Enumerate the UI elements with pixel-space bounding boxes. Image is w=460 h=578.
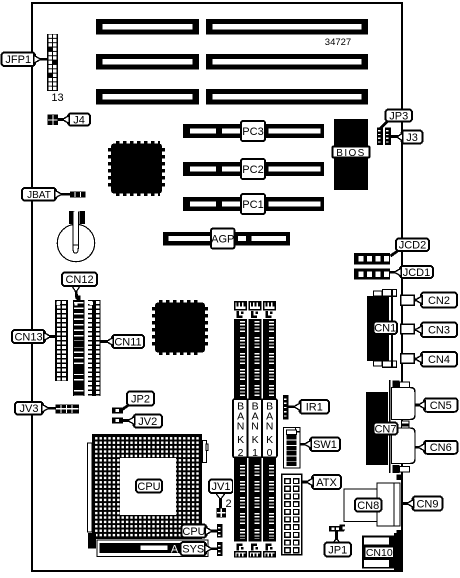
- label CN8: [355, 499, 382, 512]
- svg-text:JFP1: JFP1: [5, 54, 31, 66]
- svg-text:CN11: CN11: [114, 336, 141, 348]
- svg-text:K: K: [237, 434, 244, 446]
- svg-text:JV3: JV3: [20, 403, 39, 415]
- jumper JP2: [112, 408, 123, 414]
- svg-text:CPU: CPU: [182, 526, 205, 538]
- connector CN10: [362, 536, 396, 569]
- ISA slot 1: [96, 89, 199, 105]
- slot bar A: [97, 540, 208, 557]
- jumper block JP3: [377, 128, 383, 146]
- connector CN1 block: [367, 296, 389, 361]
- callout JCD2: [391, 250, 400, 256]
- svg-text:JP1: JP1: [328, 544, 347, 556]
- southbridge chip: [159, 300, 201, 303]
- svg-text:SW1: SW1: [313, 439, 337, 451]
- connector CN8: [344, 489, 377, 522]
- ATX power connector: [282, 474, 302, 555]
- port CN4: [401, 354, 415, 364]
- svg-text:J4: J4: [73, 114, 85, 126]
- callout SW1: [310, 438, 340, 452]
- svg-text:CN8: CN8: [357, 500, 379, 512]
- callout JP3: [381, 120, 389, 129]
- callout CN2: [421, 293, 457, 308]
- svg-text:J3: J3: [406, 132, 418, 144]
- svg-text:JCD2: JCD2: [399, 240, 427, 252]
- svg-text:AGP: AGP: [211, 233, 234, 245]
- svg-text:N: N: [266, 421, 274, 433]
- PCI slot PC1: [183, 197, 324, 211]
- svg-text:JV1: JV1: [212, 481, 231, 493]
- jumper JP1: [329, 526, 344, 532]
- port CN6: [392, 428, 416, 464]
- svg-text:PC1: PC1: [242, 199, 263, 211]
- callout CN11: [112, 335, 144, 348]
- svg-text:CN7: CN7: [374, 423, 396, 435]
- callout JBAT: [22, 188, 56, 201]
- port CN2: [401, 295, 415, 305]
- label CPU: [136, 480, 162, 493]
- svg-text:0: 0: [267, 447, 273, 459]
- svg-text:JCD1: JCD1: [403, 267, 431, 279]
- callout JV3: [15, 402, 43, 415]
- svg-text:JP3: JP3: [389, 110, 408, 122]
- svg-text:JV2: JV2: [138, 416, 157, 428]
- header CPU fan: [217, 524, 223, 538]
- northbridge chip: [116, 141, 160, 144]
- DIMM slot BANK0: [262, 300, 277, 558]
- DIP switch SW1: [284, 428, 301, 469]
- callout JV1: [219, 492, 222, 508]
- svg-text:CN1: CN1: [374, 323, 396, 335]
- ISA slot 3: [96, 19, 199, 35]
- callout IR1: [300, 400, 330, 414]
- connector CN11 (IDE): [88, 300, 101, 396]
- svg-text:CN12: CN12: [65, 274, 93, 286]
- callout CN9: [413, 497, 443, 511]
- svg-text:ATX: ATX: [316, 477, 337, 489]
- jumper JV2: [112, 418, 123, 424]
- jumper JV1 block: [217, 508, 227, 518]
- DIMM slot BANK1: [247, 300, 262, 558]
- callout JCD1: [400, 266, 433, 278]
- socket lever left: [88, 443, 93, 532]
- callout CN6: [424, 441, 458, 454]
- svg-text:CN6: CN6: [430, 442, 452, 454]
- connector JCD2: [354, 253, 390, 265]
- callout CN13: [12, 330, 45, 343]
- svg-text:CN3: CN3: [428, 325, 450, 337]
- svg-text:13: 13: [51, 92, 63, 104]
- callout CPU (fan): [182, 525, 207, 538]
- label CN1: [374, 322, 398, 335]
- label CN7: [374, 423, 398, 435]
- mid tabs CN5/CN6: [402, 421, 410, 424]
- callout J4: [68, 114, 90, 126]
- svg-text:CN5: CN5: [430, 400, 452, 412]
- svg-text:JP2: JP2: [131, 393, 150, 405]
- callout JV2: [134, 415, 163, 428]
- connector CN13 (floppy): [55, 300, 68, 381]
- svg-text:IR1: IR1: [306, 402, 323, 414]
- callout JP1: [335, 530, 338, 545]
- battery: [57, 224, 94, 261]
- jumper J4: [48, 115, 59, 126]
- callout CN5: [424, 398, 458, 412]
- callout CN3: [421, 323, 457, 338]
- svg-text:2: 2: [238, 447, 244, 459]
- jumper JBAT: [70, 192, 86, 198]
- svg-text:CN10: CN10: [366, 547, 393, 559]
- connector CN7 block: [366, 392, 388, 465]
- connector JFP1 (front panel header): [47, 34, 58, 91]
- svg-text:JBAT: JBAT: [27, 190, 51, 201]
- PCI slot PC2: [183, 162, 324, 176]
- DIMM slot BANK2: [233, 300, 248, 558]
- svg-text:PC3: PC3: [242, 126, 263, 138]
- svg-text:BIOS: BIOS: [336, 148, 366, 159]
- svg-text:34727: 34727: [325, 37, 351, 48]
- callout JP2: [122, 404, 131, 410]
- socket latch right: [203, 441, 207, 463]
- svg-text:PC2: PC2: [242, 164, 263, 176]
- callout CN4: [421, 352, 457, 367]
- header SYS fan: [217, 542, 223, 556]
- AGP slot: [163, 232, 290, 246]
- svg-text:N: N: [237, 421, 245, 433]
- svg-text:K: K: [266, 434, 273, 446]
- svg-text:CN9: CN9: [416, 498, 438, 510]
- connector JCD1: [354, 269, 390, 280]
- port CN3: [401, 324, 415, 334]
- header IR1: [283, 395, 289, 420]
- header JV3: [56, 405, 80, 414]
- callout JFP1: [2, 53, 36, 67]
- svg-text:CN2: CN2: [428, 295, 450, 307]
- svg-text:K: K: [252, 434, 259, 446]
- svg-text:CN4: CN4: [428, 354, 450, 366]
- svg-text:N: N: [251, 421, 259, 433]
- svg-text:SYS: SYS: [182, 544, 204, 556]
- svg-text:CPU: CPU: [137, 481, 160, 493]
- CPU socket: [92, 434, 202, 539]
- callout ATX: [312, 475, 341, 489]
- svg-text:A: A: [171, 544, 179, 556]
- motherboard outline: [32, 3, 402, 571]
- jumper block J3: [385, 128, 391, 146]
- BIOS chip: [334, 119, 368, 190]
- callout SYS (fan): [181, 542, 207, 556]
- callout CN12: [75, 290, 79, 299]
- svg-text:1: 1: [252, 447, 258, 459]
- callout J3: [391, 135, 402, 138]
- port CN5: [392, 388, 416, 420]
- ISA slot 2: [96, 54, 199, 70]
- component near CN8: [340, 525, 346, 531]
- PCI slot PC3: [183, 124, 324, 138]
- svg-text:2: 2: [225, 498, 231, 510]
- svg-text:CN13: CN13: [14, 331, 42, 343]
- label CN10: [365, 547, 395, 559]
- connector CN12 (IDE): [77, 296, 81, 301]
